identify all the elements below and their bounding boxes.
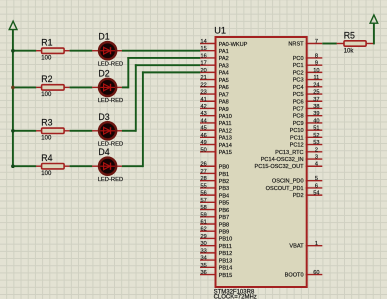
- U1 pin 53 (PC12): [290, 140, 323, 149]
- svg-text:PC1: PC1: [293, 63, 304, 69]
- svg-text:100: 100: [41, 56, 52, 62]
- junction node at rail row 4: [11, 164, 15, 168]
- U1 pin 25 (PC5): [293, 90, 323, 99]
- svg-text:PC6: PC6: [293, 99, 304, 105]
- resistor R2: [36, 85, 70, 90]
- wire: R3 to D3: [70, 130, 93, 132]
- svg-text:PB3: PB3: [219, 186, 230, 192]
- U1 pin 42 (PA9): [200, 104, 229, 113]
- U1 pin 4 (PC15-OSC32_OUT): [254, 162, 322, 171]
- svg-text:PB4: PB4: [219, 193, 230, 199]
- svg-text:6: 6: [315, 183, 318, 189]
- svg-text:21: 21: [200, 75, 206, 81]
- svg-text:5: 5: [315, 176, 318, 182]
- U1 pin 22 (PA6): [200, 82, 229, 91]
- svg-text:PA7: PA7: [219, 92, 229, 98]
- svg-text:OSCOUT_PD1: OSCOUT_PD1: [266, 186, 304, 192]
- U1 pin 45 (PA12): [200, 126, 232, 135]
- svg-text:43: 43: [200, 111, 206, 117]
- wire: D3 to U1 PA3 (horizontal from LED): [122, 130, 136, 132]
- svg-text:PB5: PB5: [219, 201, 230, 207]
- svg-text:28: 28: [200, 176, 206, 182]
- svg-text:11: 11: [313, 75, 319, 81]
- junction node at rail row 3: [11, 129, 15, 133]
- U1 pin 7 (NRST): [288, 39, 322, 48]
- U1 pin 61 (PB8): [200, 220, 229, 229]
- svg-text:PB6: PB6: [219, 208, 230, 214]
- svg-text:PC11: PC11: [290, 135, 304, 141]
- svg-text:LED-RED: LED-RED: [98, 177, 123, 183]
- svg-text:42: 42: [200, 104, 206, 110]
- svg-text:62: 62: [200, 227, 206, 233]
- svg-text:PC3: PC3: [293, 78, 304, 84]
- svg-text:23: 23: [200, 90, 206, 96]
- svg-text:R1: R1: [41, 38, 52, 48]
- svg-text:VBAT: VBAT: [289, 244, 304, 250]
- svg-text:PB12: PB12: [219, 251, 233, 257]
- svg-text:LED-RED: LED-RED: [98, 61, 123, 67]
- U1 pin 36 (PB15): [200, 270, 232, 279]
- svg-text:35: 35: [200, 263, 206, 269]
- svg-text:24: 24: [313, 82, 319, 88]
- svg-text:PC14-OSC32_IN: PC14-OSC32_IN: [261, 157, 304, 163]
- svg-text:58: 58: [200, 205, 206, 211]
- U1 pin 62 (PB9): [200, 227, 229, 236]
- svg-text:100: 100: [41, 92, 52, 98]
- svg-text:D3: D3: [98, 112, 109, 122]
- U1 pin 46 (PA13): [200, 133, 232, 142]
- svg-text:56: 56: [200, 191, 206, 197]
- svg-text:PB2: PB2: [219, 179, 230, 185]
- svg-text:10k: 10k: [344, 48, 355, 54]
- LED D1: [92, 42, 122, 59]
- svg-text:57: 57: [200, 198, 206, 204]
- wire: rail to R4: [13, 165, 36, 167]
- svg-text:PA8: PA8: [219, 100, 229, 106]
- U1 pin 50 (PA15): [200, 147, 232, 156]
- wire: D1 to U1 PA1: [122, 50, 200, 52]
- power symbol (left VCC arrow): [9, 21, 17, 29]
- svg-text:D2: D2: [98, 68, 109, 78]
- svg-text:1: 1: [315, 241, 318, 247]
- svg-text:PC10: PC10: [290, 128, 304, 134]
- U1 pin 3 (PC14-OSC32_IN): [261, 155, 323, 164]
- svg-text:26: 26: [200, 162, 206, 168]
- svg-text:PA15: PA15: [219, 150, 232, 156]
- svg-text:54: 54: [313, 191, 319, 197]
- op-amp U1 body (STM32F103R8 IC): [216, 37, 307, 287]
- U1 pin 43 (PA10): [200, 111, 232, 120]
- junction node at rail row 1: [11, 49, 15, 53]
- svg-text:100: 100: [41, 136, 52, 142]
- U1 pin 23 (PA7): [200, 90, 229, 99]
- wire: riser to U1 PA3 pin: [135, 64, 200, 66]
- svg-text:PA9: PA9: [219, 107, 229, 113]
- svg-text:59: 59: [200, 212, 206, 218]
- U1 pin 57 (PB5): [200, 198, 229, 207]
- svg-text:PA5: PA5: [219, 78, 229, 84]
- svg-text:PC8: PC8: [293, 114, 304, 120]
- U1 pin 6 (OSCOUT_PD1): [266, 183, 323, 192]
- svg-text:PB8: PB8: [219, 222, 230, 228]
- svg-text:PC7: PC7: [293, 106, 304, 112]
- U1 pin 14 (PA0-WKUP): [200, 39, 248, 48]
- svg-text:PC5: PC5: [293, 92, 304, 98]
- U1 pin 35 (PB14): [200, 263, 232, 272]
- U1 pin 56 (PB4): [200, 191, 229, 200]
- U1 pin 38 (PC7): [293, 104, 323, 113]
- svg-text:PA14: PA14: [219, 143, 232, 149]
- svg-text:51: 51: [313, 126, 319, 132]
- svg-text:PC15-OSC32_OUT: PC15-OSC32_OUT: [254, 164, 304, 170]
- svg-text:38: 38: [313, 104, 319, 110]
- svg-text:PB1: PB1: [219, 172, 230, 178]
- svg-text:27: 27: [200, 169, 206, 175]
- U1 pin 33 (PB12): [200, 248, 232, 257]
- svg-text:PC13_RTC: PC13_RTC: [275, 150, 304, 156]
- svg-text:PA0-WKUP: PA0-WKUP: [219, 42, 248, 48]
- svg-text:OSCIN_PD0: OSCIN_PD0: [272, 179, 304, 185]
- svg-text:7: 7: [315, 39, 318, 45]
- svg-text:10: 10: [313, 68, 319, 74]
- U1 pin 49 (PA14): [200, 140, 232, 149]
- svg-text:PA12: PA12: [219, 128, 232, 134]
- svg-text:36: 36: [200, 270, 206, 276]
- svg-text:R4: R4: [41, 153, 52, 163]
- svg-text:LED-RED: LED-RED: [98, 98, 123, 104]
- svg-text:37: 37: [313, 97, 319, 103]
- LED D3: [92, 122, 122, 139]
- svg-text:3: 3: [315, 155, 318, 161]
- svg-text:52: 52: [313, 133, 319, 139]
- svg-text:CLOCK=72MHz: CLOCK=72MHz: [214, 295, 257, 299]
- U1 pin 11 (PC3): [293, 75, 323, 84]
- U1 pin 5 (OSCIN_PD0): [272, 176, 322, 185]
- svg-text:BOOT0: BOOT0: [285, 273, 304, 279]
- svg-text:8: 8: [315, 53, 318, 59]
- svg-text:R3: R3: [41, 118, 52, 128]
- resistor R4: [36, 164, 70, 169]
- svg-text:PA2: PA2: [219, 56, 229, 62]
- U1 pin 27 (PB1): [200, 169, 229, 178]
- svg-text:30: 30: [200, 241, 206, 247]
- svg-text:33: 33: [200, 248, 206, 254]
- svg-text:PC12: PC12: [290, 143, 304, 149]
- svg-text:D1: D1: [98, 32, 109, 42]
- wire: U1 NRST to R5: [322, 43, 337, 45]
- wire: D3 riser vertical: [135, 64, 137, 132]
- U1 pin 34 (PB13): [200, 256, 232, 265]
- U1 pin 24 (PC4): [293, 82, 323, 91]
- resistor R1: [36, 48, 70, 53]
- U1 pin 8 (PC0): [293, 53, 323, 62]
- svg-text:29: 29: [200, 234, 206, 240]
- LED D4: [92, 158, 122, 175]
- svg-text:34: 34: [200, 256, 206, 262]
- U1 pin 15 (PA1): [200, 46, 229, 55]
- wire: R5 riser to power: [373, 23, 375, 44]
- svg-text:PB9: PB9: [219, 230, 230, 236]
- power symbol (right VCC arrow): [370, 15, 378, 23]
- svg-text:PC2: PC2: [293, 70, 304, 76]
- svg-text:55: 55: [200, 183, 206, 189]
- wire: left power rail vertical: [12, 30, 14, 167]
- svg-text:15: 15: [200, 46, 206, 52]
- wire: R1 to D1: [70, 50, 93, 52]
- svg-text:R2: R2: [41, 74, 52, 84]
- U1 pin 16 (PA2): [200, 53, 229, 62]
- wire: D4 riser vertical: [142, 71, 144, 167]
- resistor R3: [36, 128, 70, 133]
- U1 pin 51 (PC10): [290, 126, 323, 135]
- svg-text:2: 2: [315, 147, 318, 153]
- U1 pin 41 (PA8): [200, 97, 229, 106]
- wire: R4 to D4: [70, 165, 93, 167]
- svg-text:41: 41: [200, 97, 206, 103]
- svg-text:PC9: PC9: [293, 121, 304, 127]
- svg-text:PA6: PA6: [219, 85, 229, 91]
- svg-text:NRST: NRST: [288, 42, 304, 48]
- U1 pin 20 (PA4): [200, 68, 229, 77]
- svg-text:46: 46: [200, 133, 206, 139]
- svg-text:PD2: PD2: [293, 193, 304, 199]
- U1 pin 55 (PB3): [200, 183, 229, 192]
- svg-text:PB0: PB0: [219, 165, 230, 171]
- svg-text:100: 100: [41, 171, 52, 177]
- svg-text:PA10: PA10: [219, 114, 232, 120]
- svg-text:PB10: PB10: [219, 237, 233, 243]
- svg-text:PB15: PB15: [219, 273, 233, 279]
- wire: rail to R1: [13, 50, 36, 52]
- U1 pin 9 (PC1): [293, 61, 323, 70]
- wire: R2 to D2: [70, 86, 93, 88]
- U1 pin 10 (PC2): [293, 68, 323, 77]
- wire: rail to R3: [13, 130, 36, 132]
- svg-text:60: 60: [313, 270, 319, 276]
- U1 pin 59 (PB7): [200, 212, 229, 221]
- wire: rail to R2: [13, 86, 36, 88]
- svg-text:PC4: PC4: [293, 85, 304, 91]
- resistor R5: [337, 41, 374, 46]
- U1 pin 52 (PC11): [290, 133, 322, 142]
- U1 pin 60 (BOOT0): [285, 270, 323, 279]
- U1 pin 39 (PC8): [293, 111, 323, 120]
- svg-text:PB7: PB7: [219, 215, 230, 221]
- svg-text:PC0: PC0: [293, 56, 304, 62]
- svg-text:40: 40: [313, 118, 319, 124]
- svg-text:22: 22: [200, 82, 206, 88]
- svg-text:PA1: PA1: [219, 49, 229, 55]
- svg-text:PA4: PA4: [219, 71, 229, 77]
- wire: riser to U1 PA2 pin: [127, 57, 200, 59]
- U1 pin 30 (PB11): [200, 241, 232, 250]
- LED D2: [92, 79, 122, 96]
- svg-text:U1: U1: [214, 25, 226, 35]
- U1 pin 2 (PC13_RTC): [275, 147, 322, 156]
- U1 pin 40 (PC9): [293, 118, 323, 127]
- svg-text:49: 49: [200, 140, 206, 146]
- wire: D4 to U1 PA4 (horizontal from LED): [122, 165, 143, 167]
- svg-text:PA13: PA13: [219, 136, 232, 142]
- U1 pin 1 (VBAT): [289, 241, 322, 250]
- svg-text:D4: D4: [98, 147, 109, 157]
- svg-text:PA11: PA11: [219, 121, 232, 127]
- U1 pin 26 (PB0): [200, 162, 229, 171]
- svg-text:20: 20: [200, 68, 206, 74]
- U1 pin 28 (PB2): [200, 176, 229, 185]
- U1 pin 44 (PA11): [200, 118, 231, 127]
- svg-text:4: 4: [315, 162, 318, 168]
- wire: D2 riser vertical: [127, 57, 129, 88]
- svg-text:PB14: PB14: [219, 266, 233, 272]
- svg-text:14: 14: [200, 39, 206, 45]
- svg-text:16: 16: [200, 53, 206, 59]
- svg-text:17: 17: [200, 61, 206, 67]
- svg-text:53: 53: [313, 140, 319, 146]
- U1 pin 17 (PA3): [200, 61, 229, 70]
- svg-text:9: 9: [315, 61, 318, 67]
- svg-text:25: 25: [313, 90, 319, 96]
- svg-text:R5: R5: [344, 30, 355, 40]
- U1 pin 58 (PB6): [200, 205, 229, 214]
- svg-text:61: 61: [200, 220, 206, 226]
- svg-text:45: 45: [200, 126, 206, 132]
- svg-text:50: 50: [200, 147, 206, 153]
- svg-text:39: 39: [313, 111, 319, 117]
- junction node at rail row 2: [11, 86, 15, 90]
- U1 pin 21 (PA5): [200, 75, 229, 84]
- svg-text:44: 44: [200, 118, 206, 124]
- U1 pin 37 (PC6): [293, 97, 323, 106]
- U1 pin 29 (PB10): [200, 234, 232, 243]
- svg-text:PB13: PB13: [219, 258, 233, 264]
- wire: D2 to U1 PA2 (horizontal from LED): [122, 86, 128, 88]
- U1 pin 54 (PD2): [293, 191, 323, 200]
- svg-text:PA3: PA3: [219, 63, 229, 69]
- wire: riser to U1 PA4 pin: [142, 71, 200, 73]
- svg-text:PB11: PB11: [219, 244, 232, 250]
